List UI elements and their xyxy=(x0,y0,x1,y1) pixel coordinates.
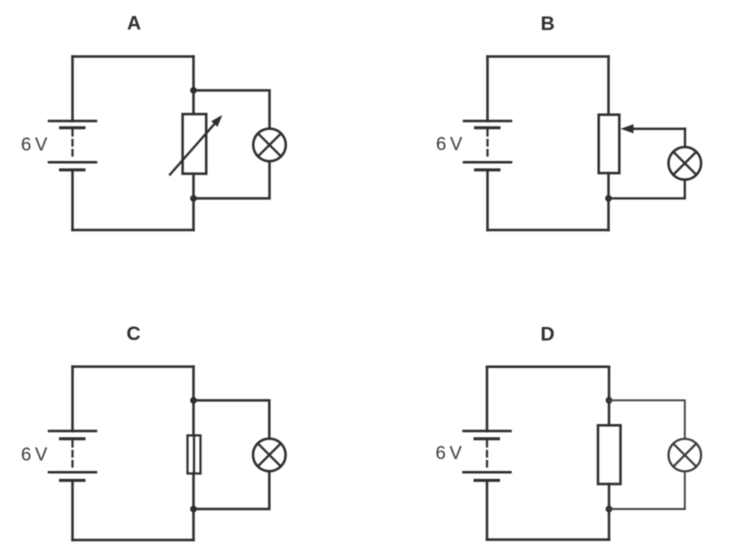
junction node C-top xyxy=(190,397,197,404)
svg-text:6 V: 6 V xyxy=(436,133,463,154)
svg-text:C: C xyxy=(126,323,140,345)
wire A right upper xyxy=(192,57,195,91)
wire D left upper xyxy=(486,367,489,431)
potentiometer R-B (resistor with wiper arrow) xyxy=(599,115,685,173)
svg-text:6 V: 6 V xyxy=(436,442,463,463)
wire C lamp branch bottom xyxy=(194,471,270,509)
battery BT-D (6V, two cells, dashed link) xyxy=(464,431,511,480)
wire B lamp branch bottom xyxy=(609,180,685,199)
wire rheostat bottom to junction xyxy=(192,174,195,199)
lamp L-D xyxy=(669,439,702,472)
junction node A-top xyxy=(190,87,197,94)
wire B right upper xyxy=(607,57,610,115)
wire A left lower xyxy=(71,170,74,230)
wire C fuse to junction xyxy=(192,474,195,510)
wire junction to rheostat top xyxy=(192,90,195,114)
junction node D-top xyxy=(606,397,613,404)
battery BT-A (6V, two cells, dashed link) xyxy=(49,121,96,170)
wire B resistor bottom to junction xyxy=(607,173,610,198)
wire B wiper to lamp xyxy=(684,129,686,147)
wire D lamp branch top (thin) xyxy=(609,400,685,439)
wire A lamp branch bottom xyxy=(194,161,270,198)
wire D right upper xyxy=(608,367,611,401)
wire D resistor to junction xyxy=(608,484,611,509)
wire C lamp branch top xyxy=(194,400,270,438)
wire D left lower xyxy=(486,480,489,539)
svg-text:A: A xyxy=(127,13,141,35)
wire A bottom xyxy=(73,229,194,232)
battery BT-C (6V, two cells, dashed link) xyxy=(49,431,96,480)
wire C left lower xyxy=(71,480,74,540)
lamp L-C xyxy=(253,439,286,472)
junction node C-bottom xyxy=(190,506,197,513)
wire A left upper xyxy=(71,57,74,122)
wire D junction to resistor xyxy=(608,400,611,425)
wire C junction to fuse xyxy=(192,400,195,435)
wire C left upper xyxy=(71,367,74,431)
lamp L-B xyxy=(669,147,702,180)
wire C right upper xyxy=(192,367,195,401)
svg-text:D: D xyxy=(541,324,555,346)
svg-text:B: B xyxy=(541,13,555,35)
wire B right lower xyxy=(607,198,610,230)
wire A top xyxy=(73,55,194,58)
wire C top xyxy=(73,365,194,368)
svg-text:6 V: 6 V xyxy=(21,134,48,155)
wire D bottom xyxy=(487,538,609,541)
wire D lamp branch bottom (thin) xyxy=(609,471,685,509)
resistor R-D xyxy=(598,425,621,484)
junction node D-bottom xyxy=(606,506,613,513)
svg-text:6 V: 6 V xyxy=(21,444,48,465)
wire A lamp branch top xyxy=(194,90,270,128)
wire D top xyxy=(487,366,609,369)
rheostat R-A (variable resistor) xyxy=(170,114,222,174)
wire D right lower xyxy=(608,509,611,540)
junction node A-bottom xyxy=(190,195,197,202)
wire C right lower xyxy=(192,509,195,540)
junction node B-bottom xyxy=(605,195,612,202)
wire B left lower xyxy=(486,170,489,230)
battery BT-B (6V, two cells, dashed link) xyxy=(464,121,511,170)
wire B bottom xyxy=(488,229,609,232)
wire C bottom xyxy=(73,539,194,542)
wire B left upper xyxy=(486,57,489,122)
wire B top xyxy=(488,55,609,58)
lamp L-A xyxy=(253,129,286,162)
wire A right lower xyxy=(192,198,195,230)
fuse F-C (rectangle with wire through) xyxy=(188,435,201,473)
